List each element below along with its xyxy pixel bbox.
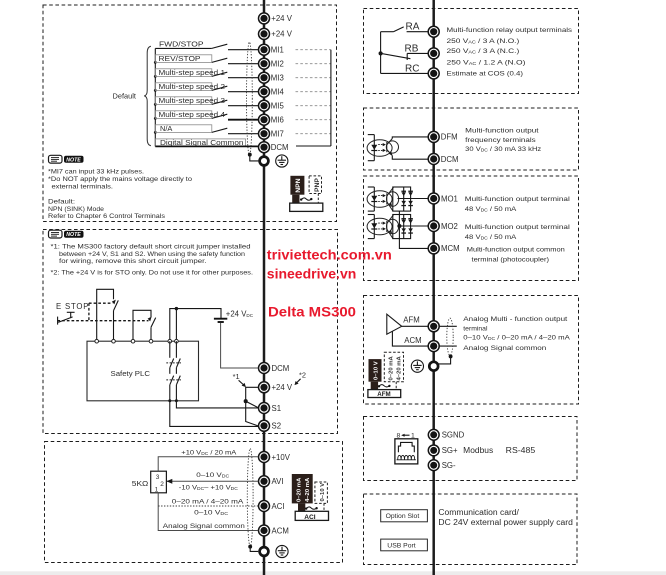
shield drain dot and wire to analog ground bbox=[249, 545, 258, 551]
shield ellipse (analog cable) bbox=[247, 449, 253, 547]
svg-text:0–20 mA: 0–20 mA bbox=[297, 477, 303, 502]
terminal SGND bbox=[428, 429, 464, 440]
bottom grey strip bbox=[0, 571, 666, 575]
svg-text:SG+: SG+ bbox=[442, 446, 458, 455]
Default brace bbox=[144, 46, 151, 145]
MO1 clamp diodes column1 bbox=[401, 191, 406, 207]
wire to MI5 bbox=[228, 105, 258, 107]
svg-text:2: 2 bbox=[160, 481, 164, 488]
terminal MI5 bbox=[259, 100, 285, 111]
svg-text:S1: S1 bbox=[272, 404, 282, 413]
svg-text:frequency terminals: frequency terminals bbox=[465, 137, 536, 144]
photocoupler MO1 transistor bbox=[387, 187, 399, 211]
svg-text:5KΩ: 5KΩ bbox=[132, 479, 149, 488]
terminal DFM bbox=[428, 131, 457, 142]
svg-text:250 VAC / 1.2 A (N.O): 250 VAC / 1.2 A (N.O) bbox=[447, 60, 526, 67]
svg-text:for wiring, remove this short: for wiring, remove this short circuit ju… bbox=[59, 258, 207, 265]
svg-text:4–20 mA: 4–20 mA bbox=[305, 477, 311, 502]
photocoupler MO1 input bracket bbox=[368, 187, 375, 211]
svg-text:250 VAC / 3 A (N.C.): 250 VAC / 3 A (N.C.) bbox=[447, 48, 520, 55]
Multi-step speed 3 label box bbox=[155, 96, 225, 105]
safety loop 1 (tall) with contact bbox=[97, 289, 119, 341]
earth symbol (analog output) bbox=[411, 360, 423, 372]
wire AVI to pot pin2 with arrow bbox=[166, 479, 258, 484]
svg-text:RS-485: RS-485 bbox=[506, 446, 536, 455]
svg-text:Analog Multi - function output: Analog Multi - function output bbox=[463, 316, 567, 323]
wire to MI3 bbox=[228, 77, 258, 79]
MI4 leader bbox=[296, 91, 331, 93]
terminal AVI bbox=[259, 476, 284, 487]
svg-text:N/A: N/A bbox=[160, 124, 172, 133]
svg-text:NOTE: NOTE bbox=[66, 232, 81, 238]
photocoupler MO1 LED bbox=[371, 196, 377, 202]
svg-text:*2: *2 bbox=[299, 371, 306, 380]
terminal ACM (analog common) bbox=[259, 525, 289, 536]
svg-text:NPN: NPN bbox=[295, 178, 302, 192]
shield ellipse (analog output) bbox=[447, 318, 453, 355]
DCM leader (solid) bbox=[296, 145, 331, 147]
MO1 clamp diodes column2 bbox=[408, 191, 413, 207]
svg-text:0–20 mA: 0–20 mA bbox=[389, 356, 395, 381]
svg-text:Delta MS300: Delta MS300 bbox=[268, 305, 356, 321]
terminal SG+ bbox=[428, 445, 458, 456]
svg-text:Option Slot: Option Slot bbox=[386, 513, 420, 520]
MI6 leader bbox=[296, 119, 331, 121]
RJ45 pin numbering 8-1 bbox=[397, 433, 416, 440]
svg-text:RA: RA bbox=[406, 22, 420, 33]
svg-text:30 VDC / 30 mA 33 kHz: 30 VDC / 30 mA 33 kHz bbox=[465, 146, 542, 153]
PLC input terminals (open circles) bbox=[95, 339, 178, 343]
svg-text:ACM: ACM bbox=[272, 526, 289, 535]
E-stop button symbol bbox=[58, 312, 75, 324]
svg-text:sineedrive.vn: sineedrive.vn bbox=[267, 267, 357, 283]
svg-text:0–10 V: 0–10 V bbox=[320, 483, 326, 502]
E-stop actuator dashed link (upper) bbox=[89, 300, 116, 321]
MO2 clamp diodes column2 bbox=[408, 218, 413, 234]
terminal S1 bbox=[259, 403, 282, 414]
switch blade MI3 bbox=[212, 72, 228, 76]
node on +24V feed bbox=[175, 307, 178, 310]
svg-text:E STOP: E STOP bbox=[56, 302, 89, 311]
svg-text:*1: The MS300 factory default: *1: The MS300 factory default short circ… bbox=[51, 243, 251, 250]
wire emitter to DCM bbox=[392, 156, 428, 160]
ground ring terminal (analog) bbox=[260, 547, 269, 556]
wire ACI (dotted) bbox=[158, 505, 258, 507]
photocoupler DFM input bracket bbox=[368, 135, 375, 161]
photocoupler DFM LED bbox=[371, 145, 377, 151]
shield ellipse (digital cable) bbox=[247, 42, 253, 155]
terminal RA bbox=[406, 22, 440, 38]
svg-text:AFM: AFM bbox=[377, 391, 390, 398]
svg-text:DC 24V external power supply c: DC 24V external power supply card bbox=[438, 518, 573, 527]
svg-text:*2: The +24 V is for STO only.: *2: The +24 V is for STO only. Do not us… bbox=[51, 270, 254, 277]
svg-text:+10V: +10V bbox=[272, 453, 291, 462]
wire MO1 output bbox=[398, 198, 429, 200]
svg-text:triviettech.com.vn: triviettech.com.vn bbox=[267, 248, 392, 264]
box R4 analog output group bbox=[364, 296, 579, 405]
svg-text:48 VDC / 50 mA: 48 VDC / 50 mA bbox=[465, 234, 517, 241]
svg-text:S2: S2 bbox=[272, 422, 282, 431]
terminal S2 bbox=[259, 420, 282, 431]
terminal MI1 bbox=[259, 44, 284, 55]
svg-text:USB Port: USB Port bbox=[387, 542, 415, 549]
svg-text:DCM: DCM bbox=[272, 364, 290, 373]
svg-text:Analog Signal common: Analog Signal common bbox=[163, 523, 245, 530]
N/A label box bbox=[155, 124, 212, 133]
Multi-step speed 4 label box bbox=[155, 110, 225, 119]
wire amp to AFM terminal and shield bbox=[402, 325, 457, 327]
svg-text:0–10 VDC: 0–10 VDC bbox=[194, 510, 228, 517]
svg-text:ACI: ACI bbox=[272, 502, 285, 511]
Digital Signal Common label box bbox=[155, 138, 245, 147]
photocoupler MO2 light arrows bbox=[378, 222, 386, 231]
MI3 leader bbox=[296, 77, 331, 79]
svg-text:3: 3 bbox=[156, 474, 160, 481]
switch blade MI7 bbox=[212, 128, 228, 132]
box L2 safety STO group bbox=[43, 230, 338, 434]
MI2 leader bbox=[296, 63, 331, 65]
svg-text:Multi-function output: Multi-function output bbox=[465, 128, 539, 135]
svg-text:MI1: MI1 bbox=[271, 46, 284, 55]
svg-text:4–20 mA: 4–20 mA bbox=[396, 356, 402, 381]
svg-text:MI4: MI4 bbox=[271, 88, 285, 97]
photocoupler MO2 envelope bbox=[367, 218, 392, 235]
terminal MI3 bbox=[259, 72, 284, 83]
terminal DCM (safety section) bbox=[259, 363, 290, 374]
terminal +24V (top) bbox=[259, 13, 293, 24]
MO2 clamp bridge box bbox=[393, 215, 411, 239]
terminal MO2 bbox=[428, 221, 458, 232]
svg-text:AFM: AFM bbox=[403, 316, 419, 325]
AFM selector switch icon bbox=[368, 352, 404, 398]
wire to MI1 bbox=[228, 49, 258, 51]
svg-text:*MI7 can input 33 kHz pulses.: *MI7 can input 33 kHz pulses. bbox=[48, 169, 144, 176]
svg-text:0–10 V: 0–10 V bbox=[374, 361, 380, 380]
svg-text:PNP: PNP bbox=[314, 178, 321, 192]
svg-text:SG-: SG- bbox=[442, 461, 456, 470]
svg-text:MI6: MI6 bbox=[271, 116, 284, 125]
USB Port box bbox=[381, 539, 428, 551]
Safety PLC box bbox=[87, 341, 199, 401]
RJ45 connector icon bbox=[395, 439, 418, 464]
relay RA arm bbox=[381, 27, 428, 32]
svg-text:0–20 mA / 4–20 mA: 0–20 mA / 4–20 mA bbox=[172, 499, 244, 506]
terminal ACI bbox=[259, 501, 285, 512]
svg-text:NPN (SINK) Mode: NPN (SINK) Mode bbox=[48, 206, 104, 213]
shield drain dot and wire to ground bbox=[248, 153, 258, 161]
relay common vertical bbox=[380, 32, 382, 74]
terminal MCM bbox=[428, 243, 459, 254]
svg-text:Modbus: Modbus bbox=[463, 446, 493, 455]
svg-text:0–10 VDC: 0–10 VDC bbox=[196, 472, 229, 479]
photocoupler MO2 transistor bbox=[387, 215, 399, 239]
MI5 leader bbox=[296, 105, 331, 107]
wire collector to DFM bbox=[392, 137, 428, 139]
PLC bottom nodes bbox=[168, 399, 178, 402]
wire PLC to S2 bbox=[170, 401, 258, 427]
wire pot pin3 to +10V bbox=[158, 457, 258, 471]
svg-text:Multi-function output terminal: Multi-function output terminal bbox=[465, 224, 571, 231]
photocoupler MO2 input bracket bbox=[368, 215, 375, 239]
relay RB arm with NC bar bbox=[379, 52, 428, 60]
wire to MI4 bbox=[228, 91, 258, 93]
ground ring terminal (digital) bbox=[260, 157, 269, 166]
svg-text:SGND: SGND bbox=[442, 431, 465, 440]
input sub-bus vertical bbox=[154, 48, 156, 146]
terminal AFM bbox=[428, 321, 439, 332]
svg-text:MI5: MI5 bbox=[271, 102, 285, 111]
svg-text:Default:: Default: bbox=[48, 198, 75, 205]
terminal MI7 bbox=[259, 128, 284, 139]
photocoupler DFM light arrows bbox=[378, 143, 386, 152]
svg-text:+24 V: +24 V bbox=[271, 14, 292, 23]
switch blade MI5 bbox=[212, 100, 228, 104]
svg-text:RC: RC bbox=[405, 63, 419, 74]
terminal RC bbox=[405, 63, 439, 79]
svg-text:MCM: MCM bbox=[441, 244, 460, 253]
svg-text:Communication card/: Communication card/ bbox=[438, 508, 519, 517]
wire to MI7 bbox=[228, 133, 258, 135]
Multi-step speed 1 label box bbox=[155, 68, 225, 77]
wire right main output bus bbox=[432, 0, 435, 575]
potentiometer body bbox=[151, 471, 167, 493]
svg-text:NOTE: NOTE bbox=[66, 157, 81, 163]
op-amp buffer triangle AFM bbox=[387, 314, 402, 334]
earth symbol (analog) bbox=[276, 545, 288, 557]
svg-text:MI2: MI2 bbox=[271, 60, 284, 69]
svg-text:REV/STOP: REV/STOP bbox=[159, 54, 201, 63]
wire to MI6 (bold) bbox=[228, 119, 258, 121]
svg-text:0–10 VDC / 0–20 mA / 4–20 mA: 0–10 VDC / 0–20 mA / 4–20 mA bbox=[463, 335, 570, 342]
battery +24Vdc bbox=[214, 309, 254, 322]
FWD/STOP label and wire bbox=[155, 39, 212, 48]
terminal RB bbox=[405, 43, 440, 59]
PLC output contact column B bbox=[176, 341, 180, 401]
safety loop 2 (short) with contact bbox=[133, 310, 156, 341]
REV/STOP label box bbox=[155, 54, 212, 63]
svg-text:terminal (photocoupler): terminal (photocoupler) bbox=[472, 257, 550, 264]
photocoupler MO1 light arrows bbox=[378, 194, 386, 203]
leader collector vertical bbox=[330, 50, 332, 146]
switch blade MI4 bbox=[212, 86, 228, 90]
MI7 leader bbox=[296, 133, 331, 135]
wire MO2 output bbox=[398, 225, 429, 227]
factory jumper +24V to S1/S2 bbox=[244, 387, 258, 426]
MO1 clamp bridge box bbox=[393, 187, 411, 211]
Multi-step speed 2 label box bbox=[155, 82, 225, 91]
terminal +24V (second) bbox=[259, 28, 293, 39]
svg-text:MI7: MI7 bbox=[271, 130, 284, 139]
wire to MI2 bbox=[228, 63, 258, 65]
svg-text:Multi-function output terminal: Multi-function output terminal bbox=[465, 196, 571, 203]
switch blade MI2 bbox=[212, 58, 228, 62]
terminal ACM (analog output common) bbox=[428, 341, 439, 352]
MO2 clamp diodes column1 bbox=[401, 218, 406, 234]
common vertical to MCM bbox=[398, 211, 428, 248]
photocoupler DFM envelope bbox=[367, 140, 392, 157]
terminal MI6 bbox=[259, 114, 284, 125]
svg-text:48 VDC / 50 mA: 48 VDC / 50 mA bbox=[465, 206, 517, 213]
svg-text:MO1: MO1 bbox=[441, 194, 458, 203]
svg-text:Default: Default bbox=[113, 91, 136, 100]
svg-text:DFM: DFM bbox=[441, 133, 458, 142]
wire PLC to S1 bbox=[176, 401, 258, 408]
svg-text:AVI: AVI bbox=[272, 477, 284, 486]
svg-text:*Do NOT apply the mains voltag: *Do NOT apply the mains voltage directly… bbox=[48, 176, 192, 183]
box R3 multifunction outputs group bbox=[364, 176, 579, 281]
NOTE icon (digital) bbox=[49, 155, 84, 163]
terminal +24V (safety section) bbox=[259, 382, 293, 393]
PLC output contact column A bbox=[170, 341, 174, 401]
terminal MO1 bbox=[428, 193, 458, 204]
box R2 frequency output group bbox=[364, 108, 579, 170]
svg-text:-10 VDC– +10 VDC: -10 VDC– +10 VDC bbox=[179, 484, 238, 491]
svg-text:250 VAC / 3 A (N.O.): 250 VAC / 3 A (N.O.) bbox=[447, 38, 520, 45]
terminal MI2 bbox=[259, 58, 284, 69]
svg-text:Multi-function output common: Multi-function output common bbox=[467, 247, 565, 254]
MI1 leader (dashed) bbox=[296, 49, 331, 51]
photocoupler MO1 envelope bbox=[367, 191, 392, 208]
svg-text:FWD/STOP: FWD/STOP bbox=[159, 39, 204, 48]
svg-text:ACM: ACM bbox=[404, 336, 421, 345]
svg-text:Analog Signal common: Analog Signal common bbox=[463, 345, 546, 352]
svg-text:external terminals.: external terminals. bbox=[52, 183, 114, 190]
box L1 digital inputs group bbox=[43, 5, 337, 222]
wire left main control bus bbox=[263, 0, 266, 575]
switch blade MI1 bbox=[212, 44, 228, 48]
svg-text:ACI: ACI bbox=[304, 514, 316, 521]
relay RC wire bbox=[381, 72, 428, 74]
wire amp common to ACM terminal bbox=[392, 331, 456, 346]
terminal MI4 bbox=[259, 86, 285, 97]
terminal +10V bbox=[259, 452, 291, 463]
svg-text:+10 VDC / 20 mA: +10 VDC / 20 mA bbox=[181, 450, 237, 457]
NPN/PNP selector switch icon bbox=[290, 176, 323, 212]
svg-text:1: 1 bbox=[155, 486, 159, 493]
box R1 relay outputs group bbox=[364, 9, 579, 94]
wire pot pin1 to ACM bbox=[158, 493, 258, 531]
switch blade MI6 bbox=[212, 114, 228, 118]
terminal DCM (output) bbox=[428, 154, 458, 165]
feed branch vertical bbox=[175, 309, 177, 342]
terminal DCM (digital common) bbox=[259, 142, 289, 153]
earth symbol (digital) bbox=[276, 155, 288, 167]
box R5 modbus group bbox=[364, 417, 578, 481]
svg-text:MO2: MO2 bbox=[441, 222, 458, 231]
svg-text:Safety PLC: Safety PLC bbox=[111, 369, 151, 378]
svg-text:*1: *1 bbox=[233, 372, 240, 381]
svg-text:+24 V: +24 V bbox=[271, 30, 292, 39]
svg-text:DCM: DCM bbox=[441, 155, 459, 164]
node dots on sub-bus bbox=[154, 61, 157, 134]
DCM wire (bold) bbox=[155, 145, 258, 147]
svg-text:RB: RB bbox=[405, 43, 419, 54]
svg-text:+24 V: +24 V bbox=[272, 383, 293, 392]
box R6 option slot group bbox=[364, 494, 578, 565]
svg-text:DCM: DCM bbox=[271, 143, 289, 152]
svg-text:between +24 V, S1 and S2. When: between +24 V, S1 and S2. When using the… bbox=[59, 251, 245, 258]
terminal SG- bbox=[428, 460, 456, 471]
*2 marker with arrow bbox=[295, 371, 307, 386]
*1 marker with arrow bbox=[233, 372, 246, 387]
battery to DCM wire bbox=[221, 323, 259, 368]
ACI selector switch icon bbox=[292, 474, 329, 521]
+24Vdc feed wire bbox=[170, 309, 221, 342]
svg-text:Multi-function relay output te: Multi-function relay output terminals bbox=[447, 27, 573, 34]
box L3 analog inputs group bbox=[45, 442, 343, 563]
photocoupler DFM transistor bbox=[386, 139, 398, 156]
contact mechanical links (dashed) bbox=[166, 363, 181, 380]
Option Slot box bbox=[381, 510, 428, 522]
svg-text:Estimate at COS (0.4): Estimate at COS (0.4) bbox=[447, 71, 524, 78]
photocoupler MO2 LED bbox=[371, 223, 377, 229]
svg-text:Refer to Chapter 6 Control Ter: Refer to Chapter 6 Control Terminals bbox=[48, 213, 166, 220]
E-stop actuator dashed link (lower) bbox=[57, 317, 151, 322]
NOTE icon (safety) bbox=[49, 230, 84, 238]
shield drain to ground ring bbox=[439, 355, 453, 364]
svg-text:terminal: terminal bbox=[463, 325, 488, 332]
ground ring terminal (analog output) bbox=[429, 362, 438, 371]
svg-text:MI3: MI3 bbox=[271, 74, 284, 83]
